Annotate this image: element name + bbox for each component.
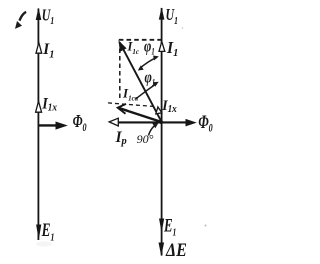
dashed horizontal projection top <box>119 39 161 41</box>
vector I1 open arrowhead <box>36 43 42 54</box>
dashed vertical projection left <box>119 49 121 102</box>
handwritten check arrow top-left <box>15 12 26 29</box>
svg-text:ΔE: ΔE <box>165 239 187 261</box>
axis U1/E1/dE vertical line <box>161 8 163 256</box>
label phi1 lower <box>145 69 156 88</box>
vector I1x open arrowhead right <box>156 107 162 114</box>
svg-text:90°: 90° <box>137 132 154 146</box>
vector Phi0 left diagram <box>38 124 57 126</box>
vector Phi0 / Ip horizontal line <box>111 121 189 123</box>
label dE <box>165 239 187 261</box>
label E1 left <box>41 221 55 244</box>
vector E1 arrowhead left <box>36 225 41 241</box>
label U1 right <box>166 6 178 27</box>
vector I1 open arrowhead right <box>159 42 165 52</box>
vector I1c line <box>120 42 162 122</box>
label Phi0 right <box>198 111 213 135</box>
vector I1x open arrowhead <box>36 101 42 112</box>
faint smudge bottom left <box>36 241 52 246</box>
vector U1 arrowhead right <box>159 7 165 19</box>
vector I1ca thick line <box>120 108 162 122</box>
vector I1ca open arrowhead <box>118 104 126 114</box>
vector I1c arrowhead <box>118 40 126 52</box>
label I1x <box>41 96 57 114</box>
vector E1 arrowhead right <box>159 219 164 233</box>
vector dE arrowhead <box>159 243 165 257</box>
arc 90 deg arrow <box>149 123 159 135</box>
label phi1 upper <box>144 38 155 57</box>
label Ip <box>115 129 128 147</box>
label U1 <box>42 6 54 27</box>
label I1 <box>42 41 54 61</box>
label I1x right <box>161 98 177 115</box>
arc phi1 upper double arrow <box>138 56 159 71</box>
dashed projection through I1ca tip <box>108 103 156 107</box>
arc phi1 lower arrow <box>136 82 159 99</box>
axis U1/E1 vertical line <box>37 9 39 241</box>
label Phi0 left <box>73 112 87 134</box>
vector U1 arrowhead <box>36 8 42 20</box>
vector Ip open arrowhead <box>109 118 118 126</box>
vector Phi0 arrowhead right <box>186 119 197 127</box>
label I1 right <box>166 40 178 59</box>
faint speck right margin <box>205 225 207 227</box>
node origin junction blob <box>159 120 163 124</box>
label E1 right <box>163 217 176 238</box>
faint speck above Phi0 right <box>182 27 184 29</box>
